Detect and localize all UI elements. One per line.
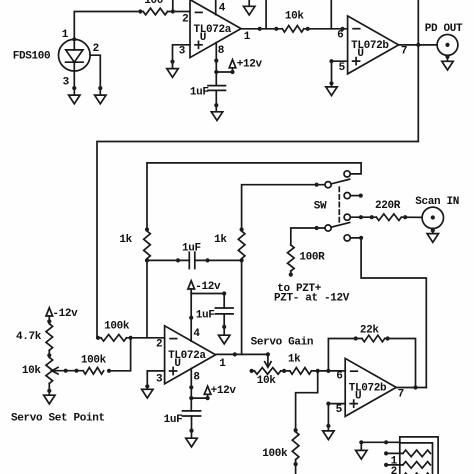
wire R1 right to U1a pin 2 with stub up: [168, 11, 191, 13]
wire switch row5 down around to U2b output: [350, 238, 426, 388]
wire R5 to Scan IN: [401, 216, 432, 218]
junction R9 to pot: [47, 353, 51, 357]
resistor R6 100R: [287, 245, 294, 271]
svg-text:8: 8: [193, 372, 200, 384]
svg-text:2: 2: [93, 43, 99, 55]
svg-text:1k: 1k: [119, 234, 132, 246]
svg-text:4.7k: 4.7k: [16, 331, 42, 343]
svg-text:10k: 10k: [22, 365, 42, 377]
wire U1a output to U2a pin 6 via R2: [241, 28, 282, 30]
resistor R11 100k: [292, 432, 299, 460]
svg-text:6: 6: [337, 30, 343, 42]
svg-text:2: 2: [182, 14, 188, 26]
svg-text:3: 3: [63, 77, 70, 89]
svg-text:PD OUT: PD OUT: [425, 23, 463, 35]
potentiometer VR2 10k servo gain: [250, 369, 254, 373]
svg-text:1uF: 1uF: [164, 414, 183, 426]
svg-text:U: U: [174, 358, 180, 370]
wire D1 anode to feedback node: [74, 12, 140, 40]
svg-text:100k: 100k: [262, 448, 288, 460]
resistor R12 22k: [362, 335, 385, 342]
wire pole B to 100R: [291, 228, 325, 245]
pin 4 stub U1a to cut top edge: [215, 0, 217, 15]
ground below PD OUT: [447, 55, 449, 61]
ground below C1: [211, 112, 222, 121]
+12v arrow at U2a pin 8: [191, 394, 207, 398]
wire 100k R7 to U2a pin2: [97, 337, 101, 339]
resistor R7 100k: [101, 334, 127, 341]
RN1 inner bus wire: [400, 443, 433, 474]
wire loop2 from left 1k to switch top contact: [147, 163, 361, 230]
wire -12v to U2a pin 4: [190, 289, 192, 341]
svg-text:3: 3: [156, 374, 163, 386]
wire loop3 pole A to right 1k: [242, 185, 325, 230]
feedback 22k from pin6 node: [328, 339, 362, 371]
-12v arrow for U2a pin 4: [188, 281, 195, 289]
wire switch row4 to R5: [350, 216, 376, 218]
wire D1 pin2 tab to ground: [90, 55, 100, 95]
op-amp U1a TL072a: [190, 0, 241, 58]
resistor R3 1k left: [144, 231, 151, 259]
svg-text:100: 100: [144, 0, 163, 7]
stub up from output node to cut edge: [265, 0, 267, 29]
U1a pin 8 wire down: [215, 43, 217, 86]
svg-text:U: U: [355, 391, 361, 403]
wire R3 bottom down to U2a pin 2 node: [146, 260, 148, 337]
-12v arrow for set point divider: [46, 308, 53, 316]
ground wire to RN1 common: [361, 441, 400, 443]
resistor R10 1k: [290, 368, 311, 375]
branch down to R11: [296, 371, 318, 432]
ground for U2a pin 3: [147, 371, 164, 389]
RN1 resistor b: [403, 462, 431, 469]
photodiode D1 FDS100: [59, 39, 91, 71]
capacitor C3 1uF at U2a pin 4: [215, 308, 233, 314]
svg-text:100k: 100k: [81, 355, 107, 367]
svg-text:22k: 22k: [360, 325, 380, 337]
svg-text:100R: 100R: [299, 251, 325, 263]
U2a pin 8 wire down: [190, 369, 192, 411]
switch SW DPDT: [325, 171, 350, 241]
svg-text:U: U: [200, 32, 206, 44]
wire VR2 to R10: [281, 370, 290, 372]
stub below R6 with end dot: [290, 271, 292, 275]
op-amp U1b TL072b: [348, 16, 399, 74]
wire U1b output pin 7 to PD OUT: [399, 44, 448, 46]
svg-text:-12v: -12v: [52, 308, 78, 320]
svg-text:220R: 220R: [375, 200, 401, 212]
svg-text:1k: 1k: [214, 234, 227, 246]
svg-text:1k: 1k: [288, 354, 301, 366]
svg-text:+12v: +12v: [237, 58, 263, 70]
wire U2a output to servo gain pot: [216, 353, 268, 355]
svg-text:7: 7: [401, 45, 407, 57]
wire R7 right to pin 2 of U2a: [127, 337, 165, 339]
wiper of servo gain pot: [267, 354, 269, 364]
connector J2 Scan IN: [422, 207, 443, 228]
op-amp U2b TL072b: [345, 358, 396, 416]
wire R4 bottom down to U2a output node: [241, 260, 243, 354]
svg-text:6: 6: [336, 371, 342, 383]
resistor R2 10k: [282, 25, 303, 32]
svg-text:2: 2: [391, 466, 397, 474]
svg-text:10k: 10k: [257, 375, 277, 387]
svg-text:5: 5: [336, 404, 343, 416]
capacitor C4 1uF at U2a pin 8: [183, 411, 201, 416]
stub up from pin6 node to cut edge: [330, 0, 332, 29]
svg-text:4: 4: [219, 3, 226, 15]
svg-text:+12v: +12v: [211, 385, 237, 397]
svg-text:7: 7: [398, 389, 404, 401]
svg-text:1: 1: [219, 358, 226, 370]
resistor R5 220R: [376, 214, 401, 221]
ground below VR1: [48, 383, 50, 395]
resistor R8 100k: [83, 367, 103, 374]
wiper arrow of set point pot: [52, 367, 58, 374]
ground for U2b pin 5: [328, 404, 345, 431]
wire pin2 node down to R8: [109, 338, 131, 371]
resistor network RN1 box: [400, 437, 438, 474]
svg-text:1: 1: [244, 31, 251, 43]
resistor R4 1k right: [238, 231, 245, 259]
svg-text:Servo Set Point: Servo Set Point: [11, 413, 105, 425]
svg-text:4: 4: [193, 328, 200, 340]
wire R8 to set point pot wiper: [52, 370, 83, 372]
RN1 resistor a: [403, 450, 431, 457]
ground for U1a pin 3: [173, 45, 191, 69]
wire U2b output pin 7: [396, 387, 426, 389]
svg-text:FDS100: FDS100: [13, 51, 51, 63]
svg-text:100k: 100k: [104, 320, 130, 332]
wire R10 to U2b pin 6: [311, 370, 345, 372]
RN1 pin 2 wire: [386, 464, 403, 466]
svg-text:10k: 10k: [285, 10, 305, 22]
wire stub up from node to cut edge: [172, 0, 174, 12]
svg-text:1uF: 1uF: [196, 309, 215, 321]
+12v arrow at U1a pin 8: [216, 68, 232, 72]
svg-text:U: U: [357, 48, 363, 60]
svg-text:PZT- at -12V: PZT- at -12V: [274, 293, 350, 305]
svg-text:Scan IN: Scan IN: [415, 196, 459, 208]
ground below C3: [223, 314, 225, 335]
svg-text:2: 2: [156, 339, 162, 351]
ground at RN1: [360, 442, 362, 450]
svg-text:-12v: -12v: [195, 281, 221, 293]
ground below Scan IN: [432, 229, 434, 234]
wire R2 to U1b pin 6: [304, 28, 348, 30]
svg-text:8: 8: [218, 45, 225, 57]
wire R3 bottom to C2: [147, 259, 189, 261]
capacitor C2 1uF horizontal: [189, 252, 195, 268]
feedback loop wire PD OUT node down and left to servo input: [97, 0, 418, 338]
ground for D1 pin 2: [95, 95, 106, 104]
ground for D1 pin 3: [69, 95, 80, 104]
svg-text:3: 3: [179, 46, 186, 58]
svg-text:Servo Gain: Servo Gain: [251, 337, 314, 349]
stub below R11 to cut bottom edge: [295, 460, 297, 474]
wire R12 to U2b output: [385, 339, 416, 388]
svg-text:1uF: 1uF: [190, 86, 209, 98]
branch to C3: [191, 294, 224, 309]
svg-text:SW: SW: [314, 200, 327, 212]
ground below C4: [191, 416, 193, 438]
floating ground symbol at top edge: [248, 0, 250, 6]
op-amp U2a TL072a servo: [165, 326, 216, 384]
svg-text:1: 1: [62, 29, 69, 41]
RN1 resistor c cut at bottom: [403, 473, 431, 474]
resistor R9 4.7k: [46, 324, 53, 351]
svg-text:1uF: 1uF: [182, 243, 201, 255]
potentiometer VR1 10k set point: [46, 357, 53, 383]
wire C2 to R4 bottom: [195, 259, 242, 261]
resistor R1 100 feedback: [143, 8, 167, 15]
wire D1 pin3 to ground: [73, 71, 75, 95]
RN1 pin 1 wire: [386, 452, 403, 454]
capacitor C1 1uF at U1a pin 8: [208, 86, 226, 91]
ground for U1b pin 5: [332, 61, 348, 87]
switch row3 stub wire with end dot: [350, 195, 360, 197]
connector J1 PD OUT: [437, 35, 458, 56]
svg-text:5: 5: [339, 62, 346, 74]
